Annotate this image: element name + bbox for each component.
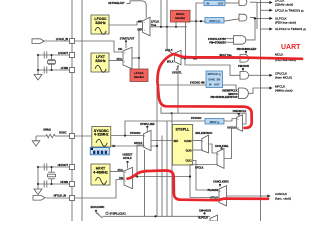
wire hfxt mux out [133,176,138,178]
svg-text:PM=RUN: PM=RUN [238,65,249,68]
wire inout feed [196,3,204,59]
svg-text:CANCLKSRC: CANCLKSRC [213,181,229,184]
divider MFPCLK [206,71,223,88]
annotation red stroke 1 [157,54,302,128]
svg-text:CLK1: CLK1 [186,161,193,163]
capacitor LF C2 [44,67,47,74]
arrow out r5 MCLK [249,57,261,59]
svg-text:SYSCTL: SYSCTL [172,71,182,74]
wire hfxt to xtal [110,171,124,173]
svg-text:HFCLK: HFCLK [134,142,143,145]
wire udiv out [224,19,239,21]
arrow out r2 [261,9,270,11]
svg-text:HFXIN: HFXIN [61,181,69,184]
wire mclk src from below [177,65,179,113]
svg-text:CLK0: CLK0 [186,150,193,152]
wire to EXT [139,30,143,59]
arrow out r1 [261,2,270,4]
wire hfclk to mux1 [137,145,144,177]
arrow out r7 MFCLK [261,87,270,89]
svg-text:UART: UART [281,44,301,51]
mux USEHSCLK [237,115,243,131]
wire HF gnd rail [37,167,39,189]
mux HFXT DIG/XTAL [124,167,133,188]
svg-text:EXT: EXT [137,29,142,31]
svg-text:1: 1 [217,165,218,167]
wire LFXT mux out [132,57,139,59]
wire SYSOSC main [75,135,92,137]
svg-text:REF: REF [174,141,179,143]
capacitor LF C1 [44,52,47,59]
svg-text:LFCLK: LFCLK [165,50,173,52]
pin HFCLK_IN [33,196,45,201]
mux LFXT DIG/XTAL [123,47,132,68]
wire mfpclk out [223,85,237,90]
svg-text:SYNC EN: SYNC EN [208,78,220,81]
svg-text:CLK2X: CLK2X [184,141,192,143]
svg-text:Tree: Tree [151,24,157,27]
wire exclk bottom [103,215,211,217]
divider UDIV [205,18,224,24]
svg-text:PLLCLK1: PLLCLK1 [208,190,219,192]
svg-text:0: 0 [144,22,145,24]
wire HFXOUT [38,166,70,168]
switch EXCLK [96,211,103,218]
svg-text:1: 1 [202,150,203,152]
svg-text:USEHSCLK: USEHSCLK [233,110,247,113]
wire g1 out arrow LFCLK [250,1,257,3]
svg-text:CM=ADC0: CM=ADC0 [199,210,212,213]
svg-text:IN OUT: IN OUT [209,83,220,86]
pll SYSPLL [172,125,192,166]
pad LFXOUT [70,53,75,58]
svg-text:HSCLKSEL: HSCLKSEL [215,145,229,148]
mux LF INT/EXT [143,17,151,35]
wire LFCLK tree [150,26,187,28]
svg-text:32kHz: 32kHz [95,59,106,63]
wire LF gnd rail [37,55,39,75]
svg-text:1: 1 [144,30,145,32]
wire HFXIN [38,183,70,185]
wire monitor leg1 to switch feed [175,22,177,28]
wire mux1 out to SYSPLL REF [151,140,172,142]
wire STARTLFXT select [125,41,127,48]
wire HFCLK_IN [46,197,70,199]
gate AND ulpclk [239,14,247,21]
right feed vertical top [256,3,258,30]
wire clk1 down to canclk [193,161,219,191]
wire LFXT to XTAL input [109,60,123,62]
arrow out r6 CPUCLK [249,74,261,76]
svg-text:0: 0 [144,136,145,138]
wire LFXIN [38,69,70,71]
capacitor HF C3 [44,164,47,171]
oscillator LFOSC [91,15,109,34]
svg-text:LFCLK to TIMG0/1 (2): LFCLK to TIMG0/1 (2) [275,8,304,12]
node SYSPLLCLK1 [106,212,108,214]
svg-text:Monitor: Monitor [175,16,185,20]
wire to LFCLK monitor [138,58,140,69]
wire LFOSC to INT [109,22,143,26]
svg-text:UDIV (1): UDIV (1) [209,19,220,23]
wire hfclk to canclk mux [190,177,219,198]
pad HFCLK_IN [70,196,75,201]
svg-text:(func. clock): (func. clock) [275,197,291,201]
oscillator SYSOSC [92,127,111,148]
wire 4M out [111,145,157,147]
svg-text:OUT: OUT [218,1,224,5]
wire cpuclk feed [185,59,240,76]
svg-text:SYSPLLREF: SYSPLLREF [140,123,155,126]
svg-text:ULPCLK to TIMG0/1 (2): ULPCLK to TIMG0/1 (2) [275,27,306,31]
ground HF [34,189,42,195]
svg-text:PM=RUN/SLEEP: PM=RUN/SLEEP [237,48,257,51]
gate AND standby [227,38,234,40]
svg-text:0: 0 [124,53,125,55]
wire inout out [225,2,239,4]
svg-text:SYSOSC: SYSOSC [130,132,141,135]
crystal LFXT Y1 [48,54,56,71]
svg-text:PM=RUN/SLEEP/STOP: PM=RUN/SLEEP/STOP [211,96,238,99]
wire mid risers [144,150,146,216]
wire riser2 [166,0,168,50]
svg-text:4-48MHz: 4-48MHz [93,170,108,174]
pad HFXIN [70,182,75,187]
svg-text:SYSOSC 4M: SYSOSC 4M [190,82,205,85]
wire riser1 [160,0,162,27]
svg-text:(4MHz clock): (4MHz clock) [275,89,293,93]
mux CANCLK [219,186,227,206]
gate AND lfclk [239,0,247,6]
wire sysosc4m [157,85,206,146]
arrow out r3 [261,17,270,19]
gear selector block [90,148,109,155]
monitor MCLK [171,10,191,22]
monitor LFCLK [130,69,148,82]
mux SYSPLLREF [144,130,152,150]
svg-text:1: 1 [124,61,125,63]
svg-text:LFCLK: LFCLK [134,71,143,75]
svg-text:HFCLK: HFCLK [123,157,132,160]
svg-text:SYSPLLCLK1: SYSPLLCLK1 [110,213,127,216]
svg-text:4-32MHz: 4-32MHz [94,133,109,137]
svg-text:SYSOSC: SYSOSC [191,117,202,120]
pin LFCLK_IN [32,39,44,44]
wire clk0 [193,149,202,151]
svg-text:ROSC: ROSC [59,131,66,134]
wire mux2 out [209,144,218,153]
chip boundary rail left outer [81,0,83,221]
svg-text:1: 1 [144,146,145,148]
svg-text:DIG: DIG [119,178,123,180]
mux ADC [210,215,218,221]
svg-text:INT: INT [138,21,142,23]
wire clk2x [193,140,202,142]
svg-text:0: 0 [125,172,126,174]
pad LFXIN [70,68,75,73]
gate AND cpuclk [240,72,249,80]
svg-text:HFXOUT: HFXOUT [58,164,69,167]
svg-text:HFCLK_IN: HFCLK_IN [54,195,67,198]
svg-text:SYSPLL: SYSPLL [176,128,191,132]
pad ROSC [70,134,75,139]
svg-text:LFXOUT: LFXOUT [58,52,68,55]
svg-text:SETUSELFXT: SETUSELFXT [108,2,125,5]
annotation red stroke 2 [128,171,269,201]
svg-text:0: 0 [219,191,220,193]
wire monitor leg2 [184,22,186,59]
svg-text:(from MCLK): (from MCLK) [275,76,292,80]
arrow out r4 [261,28,270,30]
wire mdiv out [224,119,237,122]
wire LFCLK_IN [44,40,72,42]
svg-text:ULPCLK: ULPCLK [198,216,208,219]
svg-text:0: 0 [217,154,218,156]
svg-text:(32kHz clock): (32kHz clock) [275,3,293,7]
svg-text:CANCLK: CANCLK [275,192,287,196]
pad HFXOUT [70,165,75,170]
svg-text:MCLKDIVSCO: MCLKDIVSCO [196,132,213,135]
wire sysosc to MDIV [125,121,205,136]
svg-text:STARTLFXT: STARTLFXT [120,37,135,40]
crystal HFXT Y2 [48,166,56,185]
ground LF [34,75,42,81]
ground ROSC [32,141,40,146]
wire canclk out [227,195,261,197]
svg-text:PM=STANDBY: PM=STANDBY [209,42,226,45]
pad LFCLK_IN [70,39,75,44]
oscillator LFXT [91,53,109,72]
gate AND mfclk [239,88,249,99]
svg-text:LFCLK_IN: LFCLK_IN [56,38,68,41]
svg-text:100kΩ: 100kΩ [43,129,51,132]
wire LFXOUT [38,54,70,56]
capacitor HF C4 [44,181,47,188]
svg-text:32kHz: 32kHz [95,21,106,25]
svg-text:(PD0 bus clock): (PD0 bus clock) [275,20,296,24]
gate AND mclk [240,55,249,63]
svg-text:XTAL: XTAL [116,58,122,61]
svg-text:1: 1 [125,180,126,182]
oscillator HFXT [91,164,110,185]
svg-text:0: 0 [202,141,203,143]
wire hsclk to mux [224,128,237,159]
svg-text:Monitor: Monitor [134,75,144,79]
chip boundary rail left inner [71,0,73,221]
mux MCLK source switch [175,50,182,64]
wire SETUSELFXT to LF mux select [127,1,147,18]
wire hfclk to mux3 [137,165,217,177]
mux SYSPLL clk sel [202,135,209,153]
svg-text:MCLK: MCLK [167,62,174,64]
mux digits [124,22,220,200]
divider ULPCLK IN/OUT [204,1,225,6]
svg-text:LFXIN: LFXIN [61,67,68,70]
right border vertical [260,0,262,221]
mux HSCLKSEL [217,149,224,169]
svg-text:DIG: DIG [118,49,122,51]
svg-text:EXCLKSRC: EXCLKSRC [91,206,105,209]
divider MDIV [205,119,224,125]
svg-text:MCLK: MCLK [275,52,283,56]
svg-text:IN: IN [207,1,210,5]
arrow out r8 CANCLK [261,195,268,197]
